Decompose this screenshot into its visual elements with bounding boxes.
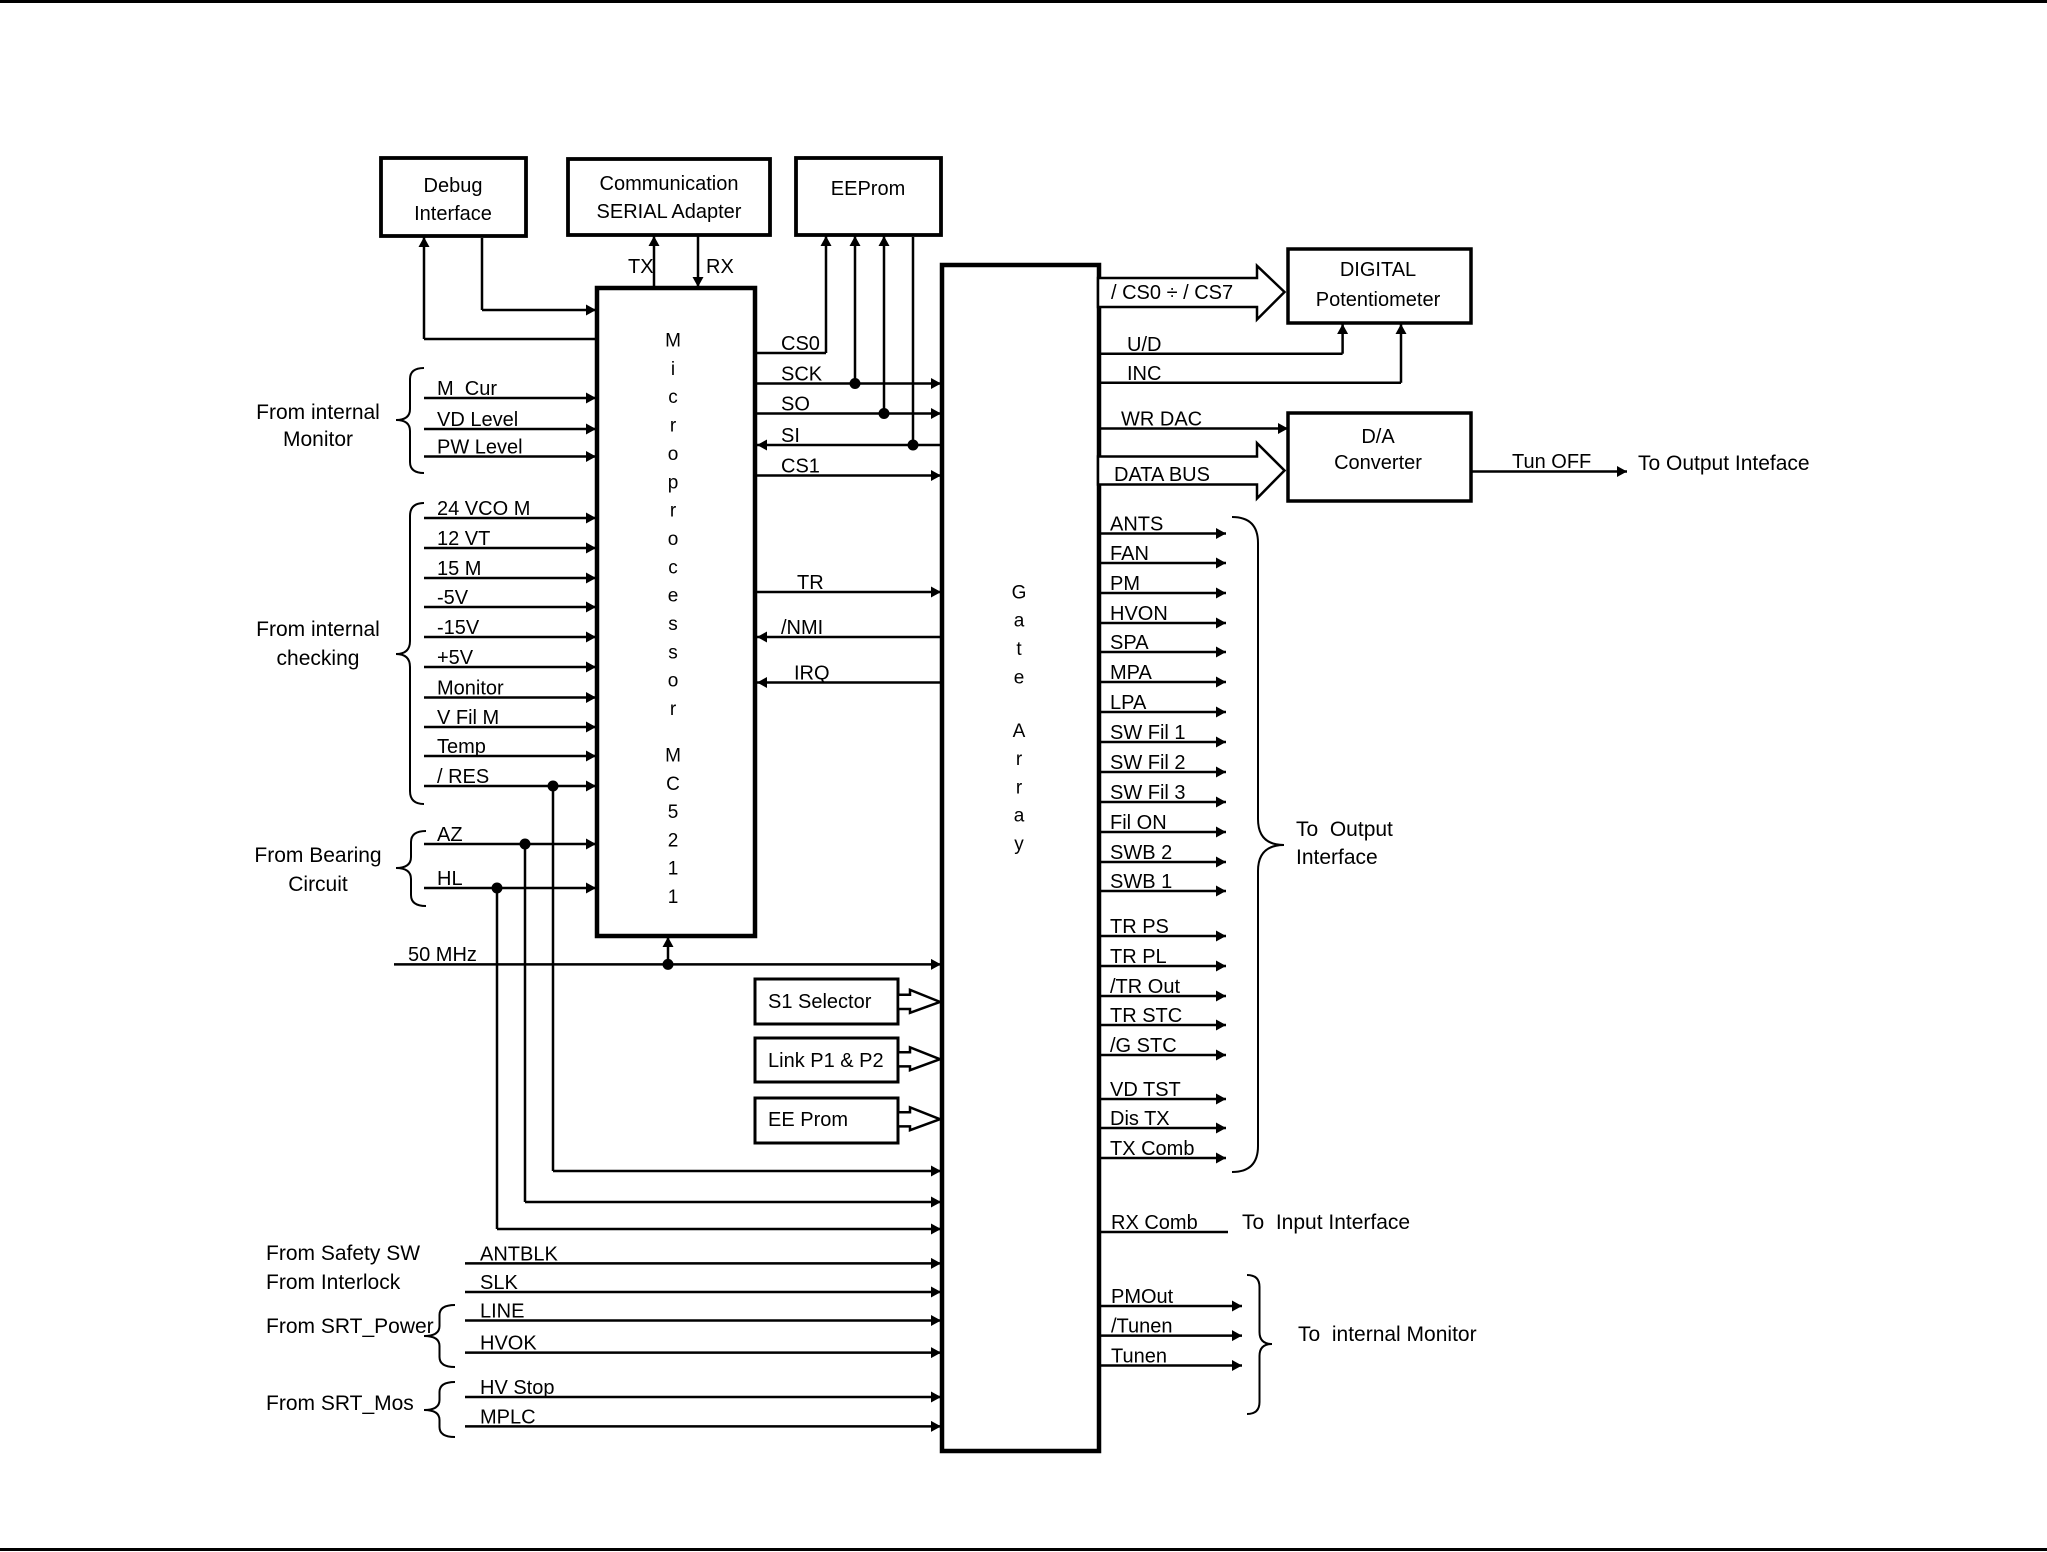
svg-text:o: o	[668, 671, 679, 692]
svg-text:o: o	[668, 529, 679, 550]
svg-text:Monitor: Monitor	[437, 678, 504, 700]
svg-text:SLK: SLK	[480, 1272, 518, 1294]
svg-text:From SRT_Power: From SRT_Power	[266, 1315, 434, 1338]
svg-text:a: a	[1014, 806, 1025, 827]
svg-text:Debug: Debug	[424, 175, 483, 197]
svg-text:PM: PM	[1110, 573, 1140, 595]
svg-text:CS1: CS1	[781, 456, 820, 478]
svg-text:TR: TR	[797, 572, 824, 594]
svg-text:Communication: Communication	[600, 173, 739, 195]
svg-text:IRQ: IRQ	[794, 663, 830, 685]
svg-text:From internal: From internal	[256, 618, 380, 641]
svg-text:i: i	[671, 359, 675, 380]
svg-text:SO: SO	[781, 394, 810, 416]
svg-text:24 VCO M: 24 VCO M	[437, 498, 530, 520]
svg-text:DATA BUS: DATA BUS	[1114, 464, 1210, 486]
svg-text:50 MHz: 50 MHz	[408, 944, 477, 966]
svg-text:TR PS: TR PS	[1110, 916, 1169, 938]
svg-text:/ CS0 ÷ / CS7: / CS0 ÷ / CS7	[1111, 282, 1233, 304]
svg-text:-15V: -15V	[437, 617, 480, 639]
svg-text:/ RES: / RES	[437, 766, 489, 788]
svg-text:1: 1	[668, 859, 679, 880]
svg-text:A: A	[1013, 721, 1026, 742]
svg-text:C: C	[666, 774, 680, 795]
svg-text:2: 2	[668, 830, 679, 851]
svg-text:TR STC: TR STC	[1110, 1005, 1182, 1027]
svg-text:1: 1	[668, 887, 679, 908]
svg-text:TX Comb: TX Comb	[1110, 1138, 1194, 1160]
svg-text:RX: RX	[706, 256, 734, 278]
svg-text:y: y	[1014, 834, 1024, 855]
svg-text:EE Prom: EE Prom	[768, 1109, 848, 1131]
svg-text:HVON: HVON	[1110, 603, 1168, 625]
svg-text:Link P1 & P2: Link P1 & P2	[768, 1050, 884, 1072]
svg-text:D/A: D/A	[1361, 426, 1395, 448]
svg-text:CS0: CS0	[781, 333, 820, 355]
svg-text:LINE: LINE	[480, 1301, 524, 1323]
svg-text:c: c	[668, 557, 678, 578]
svg-text:From internal: From internal	[256, 401, 380, 424]
svg-text:t: t	[1016, 639, 1022, 660]
svg-text:EEProm: EEProm	[831, 178, 905, 200]
svg-text:Circuit: Circuit	[288, 873, 348, 896]
svg-text:-5V: -5V	[437, 587, 469, 609]
svg-text:To Output Inteface: To Output Inteface	[1638, 452, 1810, 475]
svg-text:TX: TX	[628, 256, 654, 278]
svg-text:o: o	[668, 444, 679, 465]
svg-text:s: s	[668, 642, 678, 663]
svg-text:SWB 2: SWB 2	[1110, 842, 1172, 864]
svg-text:G: G	[1012, 582, 1027, 603]
svg-text:FAN: FAN	[1110, 543, 1149, 565]
svg-text:/G STC: /G STC	[1110, 1035, 1177, 1057]
svg-text:DIGITAL: DIGITAL	[1340, 259, 1416, 281]
svg-text:M: M	[665, 331, 681, 352]
svg-text:ANTS: ANTS	[1110, 514, 1163, 536]
svg-text:TR PL: TR PL	[1110, 946, 1167, 968]
svg-text:s: s	[668, 614, 678, 635]
svg-text:SCK: SCK	[781, 364, 823, 386]
svg-text:/TR Out: /TR Out	[1110, 976, 1180, 998]
svg-text:VD Level: VD Level	[437, 409, 518, 431]
svg-text:HL: HL	[437, 868, 463, 890]
svg-text:MPA: MPA	[1110, 662, 1153, 684]
svg-text:RX Comb: RX Comb	[1111, 1212, 1198, 1234]
svg-text:r: r	[670, 501, 677, 522]
svg-text:To Output: To Output	[1296, 818, 1393, 841]
svg-text:e: e	[1014, 668, 1025, 689]
svg-text:SW Fil 2: SW Fil 2	[1110, 752, 1186, 774]
svg-text:AZ: AZ	[437, 824, 463, 846]
svg-text:SPA: SPA	[1110, 632, 1149, 654]
svg-text:VD TST: VD TST	[1110, 1079, 1181, 1101]
svg-text:5: 5	[668, 802, 679, 823]
svg-text:Potentiometer: Potentiometer	[1316, 289, 1441, 311]
svg-text:Dis TX: Dis TX	[1110, 1108, 1170, 1130]
svg-text:Tunen: Tunen	[1111, 1346, 1167, 1368]
svg-text:SWB 1: SWB 1	[1110, 871, 1172, 893]
svg-text:+5V: +5V	[437, 647, 474, 669]
svg-text:/Tunen: /Tunen	[1111, 1316, 1173, 1338]
svg-text:r: r	[670, 699, 677, 720]
svg-text:MPLC: MPLC	[480, 1406, 536, 1428]
svg-text:checking: checking	[277, 647, 360, 670]
svg-text:U/D: U/D	[1127, 334, 1161, 356]
svg-text:From Bearing: From Bearing	[254, 844, 381, 867]
svg-text:From Interlock: From Interlock	[266, 1271, 401, 1294]
svg-text:Tun OFF: Tun OFF	[1512, 451, 1591, 473]
svg-text:Temp: Temp	[437, 736, 486, 758]
svg-text:/NMI: /NMI	[781, 617, 823, 639]
svg-text:Interface: Interface	[1296, 846, 1378, 869]
svg-text:M: M	[665, 746, 681, 767]
svg-text:e: e	[668, 586, 679, 607]
svg-text:r: r	[1016, 749, 1023, 770]
svg-text:c: c	[668, 387, 678, 408]
svg-text:To Input Interface: To Input Interface	[1242, 1211, 1410, 1234]
svg-text:To internal Monitor: To internal Monitor	[1298, 1323, 1477, 1346]
svg-text:12 VT: 12 VT	[437, 528, 490, 550]
svg-text:V Fil M: V Fil M	[437, 707, 499, 729]
svg-text:LPA: LPA	[1110, 692, 1147, 714]
svg-text:M Cur: M Cur	[437, 378, 497, 400]
svg-text:Monitor: Monitor	[283, 428, 353, 451]
svg-text:From Safety SW: From Safety SW	[266, 1242, 420, 1265]
svg-text:PW Level: PW Level	[437, 437, 523, 459]
svg-text:ANTBLK: ANTBLK	[480, 1243, 558, 1265]
svg-text:SERIAL Adapter: SERIAL Adapter	[597, 201, 742, 223]
svg-text:SW Fil 1: SW Fil 1	[1110, 722, 1186, 744]
svg-text:SW Fil 3: SW Fil 3	[1110, 782, 1186, 804]
svg-text:SI: SI	[781, 425, 800, 447]
svg-text:Converter: Converter	[1334, 452, 1422, 474]
svg-text:INC: INC	[1127, 363, 1161, 385]
svg-text:r: r	[1016, 777, 1023, 798]
svg-text:Interface: Interface	[414, 203, 492, 225]
svg-text:p: p	[668, 472, 679, 493]
svg-text:S1 Selector: S1 Selector	[768, 991, 872, 1013]
svg-text:From SRT_Mos: From SRT_Mos	[266, 1392, 414, 1415]
svg-text:r: r	[670, 416, 677, 437]
svg-text:HV Stop: HV Stop	[480, 1377, 554, 1399]
svg-text:Fil ON: Fil ON	[1110, 812, 1167, 834]
svg-text:PMOut: PMOut	[1111, 1286, 1174, 1308]
svg-text:HVOK: HVOK	[480, 1333, 537, 1355]
svg-text:WR DAC: WR DAC	[1121, 409, 1202, 431]
svg-text:15 M: 15 M	[437, 558, 481, 580]
svg-text:a: a	[1014, 611, 1025, 632]
